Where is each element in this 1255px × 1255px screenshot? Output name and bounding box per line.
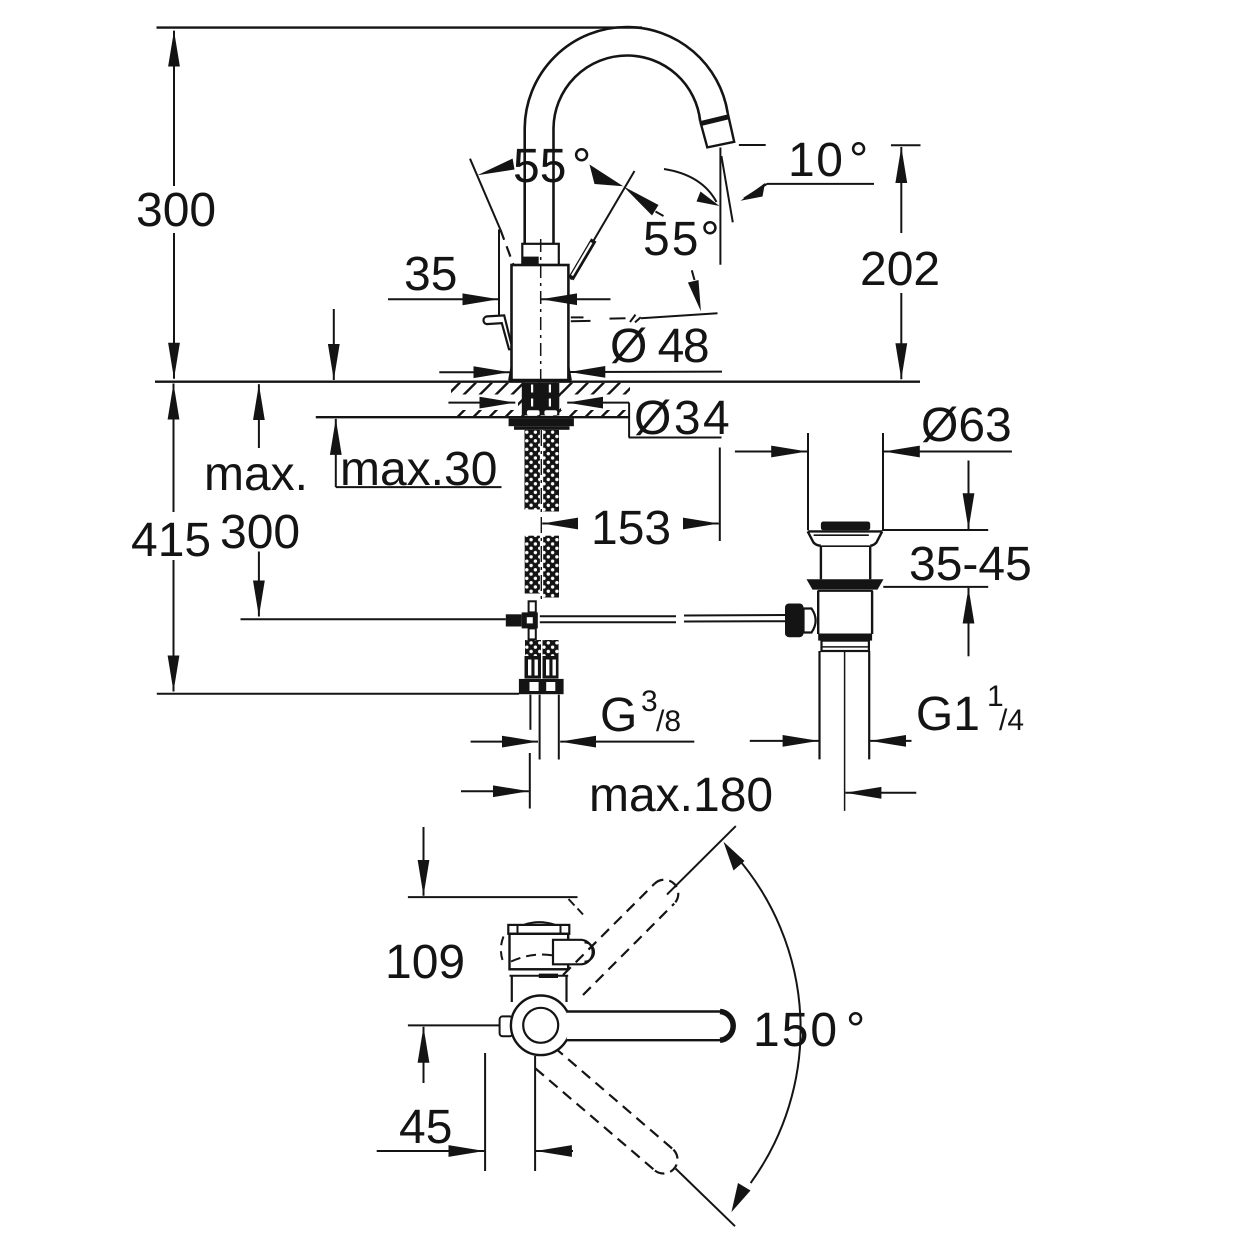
svg-text:°: °: [572, 140, 591, 193]
lower dashed lever edge 1: [555, 1048, 674, 1150]
connector left: [525, 656, 542, 679]
svg-text:Ø 48: Ø 48: [610, 320, 708, 373]
svg-text:/4: /4: [999, 704, 1024, 737]
hose nut dark: [519, 679, 564, 694]
dimension 55-1 arrowhead: [477, 159, 514, 176]
10 deg arrowhead: [741, 183, 766, 201]
bottom reference line (max415): [157, 693, 519, 695]
svg-text:300: 300: [220, 506, 300, 559]
drain side boss: [804, 609, 816, 633]
svg-text:202: 202: [860, 243, 940, 296]
lever lowered dash: [610, 317, 626, 319]
d63 extension line right: [882, 433, 884, 530]
drain plug cap dark: [821, 522, 870, 531]
svg-text:Ø63: Ø63: [921, 399, 1012, 452]
dimension 202 upper arrow: [900, 147, 902, 233]
150 degree arc: [735, 855, 801, 1183]
dimension max415 upper arrow: [173, 384, 175, 513]
svg-text:°: °: [846, 1004, 865, 1057]
stray dashes near line end: [569, 899, 575, 906]
spout inner arc: [554, 55, 701, 129]
dimension 300 (spout height) vertical with arrows: [173, 31, 175, 186]
bowtie arrow lower (55-2 start): [623, 186, 658, 215]
45 extension line right: [534, 1056, 536, 1171]
bowtie small tail: [656, 212, 664, 217]
hatch clearance for d34 arrows: [444, 395, 518, 411]
lower dashed lever edge 2: [536, 1069, 654, 1170]
svg-text:max.180: max.180: [589, 769, 773, 822]
plan aerator cap inner line: [585, 943, 595, 962]
dashed lever (left position) leader line: [470, 159, 500, 230]
10 deg leader diagonal: [744, 184, 767, 199]
svg-text:153: 153: [591, 502, 671, 555]
dimension max180 right arrow: [845, 792, 916, 794]
svg-text:/8: /8: [656, 705, 681, 738]
bowtie arrow upper (55-1 right end): [590, 165, 624, 187]
svg-text:415: 415: [131, 514, 211, 567]
solid lever plan outline: [567, 1012, 733, 1041]
upper dashed lever (75 deg) edge 1: [563, 884, 654, 975]
plan body joint lines: [510, 968, 569, 970]
shank end left block: [525, 640, 541, 656]
lever handle white core: [572, 243, 592, 276]
drain side port dark: [785, 604, 804, 638]
drain body bottom dark band: [818, 634, 872, 641]
dimension G3/8 left arrow: [471, 741, 538, 743]
nut white slot left: [527, 410, 540, 415]
svg-text:45: 45: [399, 1101, 452, 1154]
202 top tick short line at outlet level: [739, 144, 766, 146]
d63 extension line left: [807, 433, 809, 530]
dimension 300-2 lower arrow: [258, 552, 260, 617]
dimension d34 left arrow: [448, 402, 515, 404]
dimension d34 right arrow with step leader: [567, 402, 629, 404]
spout riser left edge: [523, 129, 526, 244]
svg-text:55°: 55°: [643, 213, 722, 266]
counter section hatching: [425, 383, 652, 418]
dimension d48 left arrow: [439, 371, 509, 373]
collar dark block: [522, 257, 539, 266]
svg-text:G: G: [600, 689, 637, 742]
svg-text:150: 150: [753, 1004, 839, 1057]
dimension d48 right arrow: [569, 371, 722, 373]
shank end right block: [543, 640, 559, 656]
drain body top line: [818, 590, 873, 592]
faucet body rectangle: [512, 265, 569, 381]
aerator band (thick): [701, 117, 729, 124]
rod joint white center: [527, 617, 533, 623]
drain flange underside line: [814, 534, 869, 536]
drain body right edge: [871, 591, 873, 634]
plan body sides to hub: [511, 976, 513, 1002]
svg-text:35: 35: [404, 248, 457, 301]
plan spout band ticks: [517, 926, 519, 934]
lever front extension line: [498, 229, 500, 316]
max30 bottom leader: vertical, up arrow, underline: [335, 419, 337, 487]
tailpipe left edge: [818, 651, 820, 759]
mounting nut above counter bottom (dark): [522, 383, 560, 415]
hose line upper: [529, 695, 531, 730]
35-45 upper arrow pointing down: [968, 461, 970, 530]
threaded shank lower left: [525, 536, 540, 594]
dimension G3/8 right arrow: [560, 741, 694, 743]
vertical reference line below aerator: [719, 148, 721, 265]
body base flare right: [568, 367, 570, 380]
rod joint dark square: [522, 612, 538, 628]
plan spout tip bump: [524, 922, 555, 925]
shank centerline through break: [540, 430, 542, 601]
drain flange top line: [808, 530, 883, 532]
hub center reference line: [408, 1024, 511, 1026]
10 deg dimension line: [767, 183, 874, 185]
lever lowered break marks: [630, 315, 636, 322]
150 arc top arrowhead: [724, 842, 745, 871]
connector right: [543, 656, 559, 679]
dimension max415 lower arrow: [173, 560, 175, 692]
spout riser right edge: [552, 129, 555, 244]
threaded shank upper right: [543, 430, 559, 512]
hub inner circle: [523, 1008, 558, 1043]
pull rod part 2 after break: [684, 614, 786, 617]
svg-text:G1: G1: [916, 688, 980, 741]
dimension G1-1/4 right arrow: [870, 740, 911, 742]
dimension 109 upper arrow: [423, 827, 425, 896]
svg-text:10: 10: [788, 134, 844, 187]
dimension 153 left arrow: [542, 523, 576, 525]
dimension G1-1/4 left arrow: [750, 740, 819, 742]
drain seal ring dark band: [807, 579, 884, 589]
rod joint left stub: [506, 614, 522, 626]
drain collar: [822, 641, 869, 651]
lever lowered front hook outline: [483, 315, 511, 349]
10 degree tilted stream line: [721, 156, 732, 222]
plan joint dark notch: [539, 974, 558, 978]
35-45 lower arrow pointing up: [968, 588, 970, 657]
spout outer arc: [525, 27, 728, 129]
dimension 35 left arrow: [388, 298, 499, 300]
svg-text:Ø34: Ø34: [634, 392, 732, 445]
supply pipe right line: [558, 695, 560, 760]
lever handle raised thick part: [571, 240, 594, 279]
hub outer circle: [511, 996, 571, 1056]
plan body hidden left arc (dashed): [501, 937, 504, 965]
lever lowered main line: [641, 313, 718, 318]
dimension d63 right arrow: [884, 451, 1012, 453]
body base bottom edge: [509, 379, 571, 382]
counter bottom line: [316, 416, 630, 418]
dimension 109 lower arrow: [423, 1027, 425, 1083]
drain flange left slant: [808, 531, 821, 545]
150 arc bottom arrowhead: [731, 1183, 750, 1212]
supply pipe left line: [539, 695, 541, 760]
threaded shank upper left: [525, 430, 540, 510]
pull rod left line: [241, 618, 506, 620]
svg-text:35-45: 35-45: [909, 538, 1032, 591]
countertop line: [155, 381, 920, 383]
nut white slot right: [544, 410, 557, 415]
hose line lower (max180 extension): [529, 753, 531, 809]
150 arc extension line top: [667, 826, 736, 894]
collar under riser: [522, 244, 559, 265]
109 top reference line: [408, 896, 578, 898]
lift rod stub below joint: [529, 628, 536, 639]
plan body square: [510, 934, 569, 970]
dimension 35 right arrow (to centerline): [541, 298, 610, 300]
svg-text:55: 55: [513, 140, 566, 193]
dimension 300-2 upper arrow: [258, 384, 260, 448]
dashed lever hidden edge: [500, 229, 513, 264]
drain neck left edge: [820, 546, 822, 579]
svg-text:°: °: [849, 134, 868, 187]
solid lever plan heavy cap: [720, 1012, 733, 1041]
dimension 202 lower arrow: [900, 293, 902, 379]
drain neck top line: [821, 545, 870, 547]
svg-text:max.: max.: [204, 448, 308, 501]
body base flare left: [509, 367, 511, 380]
35-45 upper extension line: [882, 529, 988, 531]
lift rod stub above joint: [529, 601, 536, 612]
lift rod hidden slots in nut: [531, 385, 533, 409]
lever handle raised (solid, right) thin extension line: [571, 171, 635, 280]
hub left tab: [500, 1016, 513, 1036]
body centerline (dash-dot): [540, 239, 542, 379]
dimension max180 left arrow: [461, 790, 529, 792]
dimension 45 right arrow: [536, 1150, 573, 1152]
dimension d63 left arrow: [735, 451, 807, 453]
dimension 153 right arrow: [683, 523, 719, 525]
55-2 arc arrowhead: [697, 192, 720, 207]
svg-text:300: 300: [136, 184, 216, 237]
spout tip outline: [700, 113, 734, 147]
tailpipe centerline: [844, 651, 846, 811]
drain body left edge: [817, 591, 819, 634]
upper dashed lever edge 2: [583, 904, 674, 995]
plan body hidden dome arc (dashed): [511, 954, 567, 961]
lever lowered position short double lines: [571, 316, 584, 318]
svg-text:109: 109: [385, 936, 465, 989]
drain flange right slant: [870, 531, 882, 545]
dimension 45 left arrow: [377, 1150, 485, 1152]
150 arc extension line bottom: [676, 1169, 736, 1227]
top reference line (spout max height): [157, 26, 643, 28]
35-45 lower extension line: [883, 586, 988, 588]
max30 top arrow pointing down at counter: [333, 309, 335, 380]
plan aerator nub: [553, 940, 593, 965]
153 right extension line: [719, 448, 721, 542]
upper dashed lever cap: [654, 880, 678, 904]
45 extension line left: [484, 1053, 486, 1171]
pull rod to drain (double line) part 1: [540, 615, 676, 617]
plan spout band: [508, 925, 569, 934]
lower dashed lever cap: [654, 1150, 678, 1174]
55-2 angular arc: [664, 169, 717, 202]
tailpipe right edge: [868, 651, 870, 759]
202 top tick: [891, 144, 921, 146]
drain neck right edge: [869, 546, 871, 579]
55-2 lower pointer arrowhead: [688, 280, 701, 311]
55-2 lower pointer shaft: [692, 270, 695, 280]
under-counter washer dark: [509, 418, 574, 426]
threaded shank lower right: [543, 536, 559, 598]
